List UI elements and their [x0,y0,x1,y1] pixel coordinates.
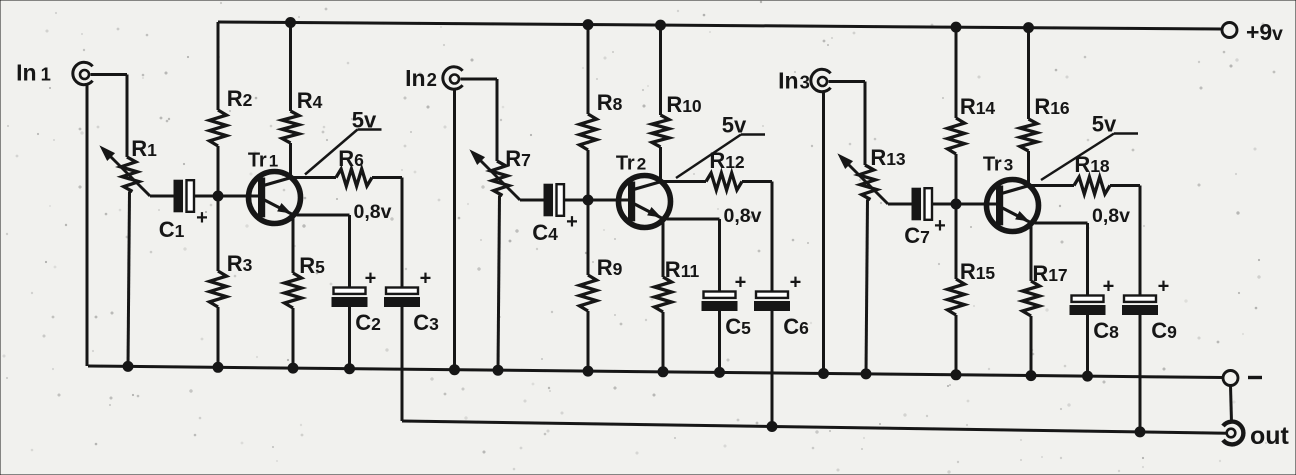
label "5v" with leader [305,130,358,175]
svg-text:Tr3: Tr3 [983,154,1013,176]
transistor Tr2 [619,176,671,228]
node jack shell / ground [819,369,829,379]
wire jack to pot [829,80,866,83]
svg-text:0,8v: 0,8v [1092,205,1130,227]
svg-text:C3: C3 [413,310,439,335]
terminal +9v [1222,23,1237,38]
node C8 / ground [1083,371,1093,381]
svg-text:R8: R8 [597,90,623,115]
resistor R3 lower bias [217,196,220,271]
resistor R14 upper bias [955,27,958,118]
transistor Tr1 [249,172,301,224]
svg-text:+: + [735,272,747,294]
svg-text:R14: R14 [960,94,996,119]
svg-text:C7: C7 [904,223,930,248]
svg-text:+9: +9 [1246,19,1272,45]
wire emitter to bypass cap [297,214,350,217]
wire jack shell to ground [453,88,456,370]
jack In3 input [811,69,831,91]
svg-text:+: + [790,272,802,294]
node jack shell / ground [450,365,460,375]
svg-text:In1: In1 [16,60,51,86]
jack In1 input [73,62,93,84]
wire wiper to coupling cap [150,195,174,198]
node R17 / ground [1026,371,1036,381]
svg-text:C4: C4 [532,220,558,245]
wire cap to base node [195,195,259,198]
node pot / ground [493,365,503,375]
wire jack to pot [461,78,498,81]
node C2 / ground [345,364,355,374]
capacitor C8 emitter bypass [1072,296,1104,302]
resistor R8 upper bias [587,25,590,114]
capacitor C5 emitter bypass [704,292,736,298]
node R16 / supply rail [1024,23,1034,33]
node base / bias divider [951,199,961,209]
jack In2 input [443,67,463,89]
node C5 / ground [715,367,725,377]
node R4 / supply rail [286,18,296,28]
wire - terminal to out jack [1231,386,1232,423]
wire wiper to coupling cap [888,203,912,206]
capacitor C1 [174,180,183,212]
svg-text:+: + [566,211,578,233]
node R14 / supply rail [951,22,961,32]
capacitor C9 output coupling [1139,186,1142,296]
svg-text:0,8v: 0,8v [354,201,392,223]
svg-text:C5: C5 [725,314,751,339]
svg-text:R6: R6 [338,146,364,171]
svg-text:C6: C6 [783,314,809,339]
svg-text:R11: R11 [665,257,700,282]
resistor R9 lower bias [587,200,590,275]
node pot / ground [861,369,871,379]
svg-text:C9: C9 [1151,318,1177,343]
node C6 / output bus [767,422,777,432]
svg-text:R10: R10 [666,92,702,117]
node pot / ground [123,361,133,371]
wire jack shell to ground [86,84,89,366]
label "5v" with leader [676,135,741,179]
svg-text:R13: R13 [870,145,906,170]
transistor Tr3 [987,180,1039,232]
wire C3 to output bus [401,307,404,422]
wire emitter to bypass cap [667,218,720,221]
svg-text:out: out [1250,422,1290,450]
node base / bias divider [213,191,223,201]
svg-text:R1: R1 [131,136,157,161]
wire cap to base node [933,203,997,206]
svg-text:R7: R7 [505,146,531,171]
terminal - [1223,371,1238,386]
wire jack to pot [91,73,128,76]
svg-text:C2: C2 [355,310,381,335]
wire pot to ground [498,196,500,371]
svg-text:Tr2: Tr2 [616,153,646,175]
wire C6 to output bus [771,311,774,427]
svg-text:5v: 5v [722,113,747,138]
svg-text:0,8v: 0,8v [724,205,762,227]
resistor R4 collector load [289,23,292,112]
svg-text:R5: R5 [299,253,325,278]
svg-text:+: + [1103,276,1115,298]
svg-text:In3: In3 [778,68,810,94]
svg-text:C8: C8 [1093,318,1119,343]
svg-text:R15: R15 [960,259,996,284]
wire C9 to output bus [1139,315,1142,432]
wire C8 to ground [1086,315,1089,377]
node base / bias divider [583,195,593,205]
resistor R15 lower bias [955,204,958,279]
resistor R11 emitter [662,219,665,277]
wire emitter to bypass cap [1035,222,1088,225]
svg-text:5v: 5v [1092,112,1117,137]
wire C2 to ground [348,307,351,369]
resistor R2 upper bias [217,22,220,110]
svg-text:In2: In2 [405,65,437,91]
label "-" [1248,376,1262,379]
wire C5 to ground [718,311,721,373]
resistor R18 output [1029,184,1074,187]
svg-text:+: + [1158,276,1170,298]
svg-text:+: + [934,215,946,237]
potentiometer R13 [859,165,877,200]
svg-text:5v: 5v [352,108,377,133]
resistor R12 output [661,180,706,183]
svg-text:R3: R3 [227,251,253,276]
capacitor C6 output coupling [771,182,774,292]
svg-text:v: v [1272,23,1283,45]
svg-text:R2: R2 [227,86,253,111]
potentiometer R1 [121,157,139,192]
svg-text:R17: R17 [1032,261,1067,286]
capacitor C3 output coupling [401,178,404,288]
wire pot to ground [866,200,868,374]
capacitor C4 [544,184,553,216]
svg-text:R9: R9 [597,255,623,280]
wire wiper to coupling cap [520,199,544,202]
wire output bus [402,421,1228,433]
svg-text:R16: R16 [1034,94,1070,119]
capacitor C2 emitter bypass [334,288,366,294]
node R8 / supply rail [583,20,593,30]
node C9 / output bus [1135,427,1145,437]
node bias divider / ground [583,366,593,376]
resistor R6 output [291,176,336,179]
svg-text:R4: R4 [297,88,323,113]
wire +9v top supply rail [218,22,1222,29]
wire jack shell to ground [822,91,825,374]
node R10 / supply rail [656,20,666,30]
potentiometer R7 [491,161,509,196]
resistor R16 collector load [1027,28,1030,119]
svg-text:Tr1: Tr1 [248,150,278,172]
svg-text:+: + [420,268,432,290]
wire pot to ground [128,192,130,367]
svg-text:+: + [365,268,377,290]
node R5 / ground [288,363,298,373]
node bias divider / ground [951,370,961,380]
node bias divider / ground [213,362,223,372]
svg-text:+: + [196,207,208,229]
svg-text:C1: C1 [159,217,185,242]
label "5v" with leader [1041,134,1114,181]
resistor R17 emitter [1030,223,1033,281]
resistor R5 emitter [292,215,295,273]
wire ground rail [88,366,1223,378]
wire cap to base node [565,199,629,202]
resistor R10 collector load [659,25,662,115]
node R11 / ground [658,367,668,377]
capacitor C7 [912,188,921,220]
jack out [1223,422,1243,445]
